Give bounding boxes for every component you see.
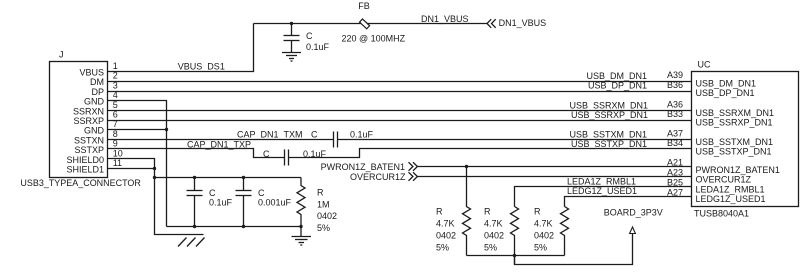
svg-text:DN1_VBUS: DN1_VBUS bbox=[421, 14, 469, 24]
svg-text:TUSB8040A1: TUSB8040A1 bbox=[694, 208, 749, 218]
svg-text:SSRXN: SSRXN bbox=[73, 106, 104, 116]
svg-text:SSTXN: SSTXN bbox=[74, 135, 104, 145]
node pullup tap bbox=[465, 165, 468, 168]
svg-text:USB_SSTXM_DN1: USB_SSTXM_DN1 bbox=[696, 137, 774, 147]
svg-text:USB_DM_DN1: USB_DM_DN1 bbox=[586, 71, 647, 81]
svg-text:OVERCUR1Z: OVERCUR1Z bbox=[696, 175, 752, 185]
svg-text:0402: 0402 bbox=[317, 211, 337, 221]
svg-text:1: 1 bbox=[113, 61, 118, 71]
svg-text:DN1_VBUS: DN1_VBUS bbox=[499, 18, 547, 28]
wire DM bbox=[108, 81, 692, 83]
svg-text:A23: A23 bbox=[667, 168, 683, 178]
wire gnd cap rail bottom bbox=[167, 226, 302, 228]
svg-text:0402: 0402 bbox=[436, 231, 456, 241]
svg-text:CAP_DN1_TXP: CAP_DN1_TXP bbox=[187, 139, 251, 149]
wire top rail bbox=[254, 23, 488, 25]
capacitor C 0.001uF (shield) bbox=[236, 176, 292, 228]
chassis ground bbox=[178, 238, 205, 247]
svg-text:UC: UC bbox=[698, 60, 711, 70]
wire SSTXP left bbox=[108, 149, 285, 158]
svg-text:C: C bbox=[263, 149, 270, 159]
svg-text:B33: B33 bbox=[667, 109, 683, 119]
node GND tee bbox=[165, 128, 168, 131]
svg-text:USB_DP_DN1: USB_DP_DN1 bbox=[696, 88, 755, 98]
node rail tie bbox=[513, 254, 516, 257]
svg-text:C: C bbox=[311, 130, 318, 140]
svg-text:2: 2 bbox=[113, 71, 118, 81]
capacitor C 0.1uF (top) bbox=[284, 24, 330, 53]
svg-text:SSTXP: SSTXP bbox=[74, 145, 104, 155]
resistor R 4.7K (3) bbox=[534, 207, 569, 256]
svg-text:4.7K: 4.7K bbox=[484, 219, 503, 229]
off-page connector PWRON1Z_BATEN1 bbox=[321, 162, 418, 172]
svg-text:A39: A39 bbox=[667, 70, 683, 80]
wire shield cap rail top bbox=[155, 177, 302, 179]
svg-text:R: R bbox=[484, 207, 491, 217]
svg-text:8: 8 bbox=[113, 129, 118, 139]
svg-text:J: J bbox=[59, 49, 64, 59]
svg-text:B36: B36 bbox=[667, 80, 683, 90]
svg-text:DM: DM bbox=[90, 77, 104, 87]
svg-text:C: C bbox=[258, 188, 265, 198]
wire GND pin7 bbox=[108, 129, 167, 131]
resistor R 1M bbox=[297, 178, 337, 233]
svg-text:5%: 5% bbox=[436, 242, 449, 252]
svg-text:USB_SSTXM_DN1: USB_SSTXM_DN1 bbox=[569, 129, 647, 139]
wire SSRXN bbox=[108, 110, 692, 112]
svg-text:0.1uF: 0.1uF bbox=[209, 198, 233, 208]
capacitor C 0.1uF (TXM series) bbox=[311, 130, 374, 148]
svg-text:5%: 5% bbox=[534, 242, 547, 252]
svg-text:DP: DP bbox=[91, 87, 104, 97]
svg-text:USB_SSRXM_DN1: USB_SSRXM_DN1 bbox=[696, 108, 775, 118]
wire OVERCUR1Z bbox=[417, 176, 691, 178]
svg-text:VBUS: VBUS bbox=[79, 68, 104, 78]
chip pin names bbox=[696, 79, 780, 205]
capacitor C 0.1uF (TXP series) bbox=[263, 149, 327, 166]
ground (top cap) bbox=[282, 53, 301, 62]
svg-text:GND: GND bbox=[84, 126, 105, 136]
chip UC pin numbers bbox=[667, 70, 683, 197]
svg-text:B25: B25 bbox=[667, 178, 683, 188]
wire GND pin4 bbox=[108, 101, 167, 227]
svg-text:R: R bbox=[534, 207, 541, 217]
wire pin1 VBUS to riser bbox=[108, 24, 254, 72]
off-page connector DN1_VBUS bbox=[487, 18, 546, 28]
svg-text:C: C bbox=[306, 31, 313, 41]
ground (R1M) bbox=[292, 227, 312, 246]
off-page connector OVERCUR1Z bbox=[350, 172, 417, 182]
svg-text:0.1uF: 0.1uF bbox=[350, 130, 374, 140]
svg-text:VBUS_DS1: VBUS_DS1 bbox=[178, 62, 225, 72]
connector pin numbers bbox=[113, 61, 123, 168]
svg-text:FB: FB bbox=[358, 1, 370, 11]
svg-text:SHIELD0: SHIELD0 bbox=[66, 155, 104, 165]
svg-text:5%: 5% bbox=[317, 223, 330, 233]
svg-text:220 @ 100MHZ: 220 @ 100MHZ bbox=[342, 34, 406, 44]
wire DP bbox=[108, 91, 692, 93]
svg-text:0.001uF: 0.001uF bbox=[258, 198, 292, 208]
svg-text:A37: A37 bbox=[667, 129, 683, 139]
resistor R 4.7K (2) bbox=[484, 207, 519, 265]
svg-text:B34: B34 bbox=[667, 138, 683, 148]
wire SSTXP right bbox=[289, 149, 692, 158]
wire SHIELD1 bbox=[108, 168, 155, 170]
svg-text:0402: 0402 bbox=[484, 231, 504, 241]
wire PWRON1Z_BATEN1 bbox=[417, 166, 691, 168]
svg-text:LEDG1Z_USED1: LEDG1Z_USED1 bbox=[696, 194, 766, 204]
node junction top cap bbox=[290, 22, 293, 25]
wire LEDA1Z_RMBL1 bbox=[515, 187, 692, 207]
wire pullup rail 1 bbox=[467, 255, 565, 257]
svg-text:A36: A36 bbox=[667, 100, 683, 110]
svg-text:R: R bbox=[436, 207, 443, 217]
svg-text:PWRON1Z_BATEN1: PWRON1Z_BATEN1 bbox=[696, 165, 780, 175]
svg-text:LEDA1Z_RMBL1: LEDA1Z_RMBL1 bbox=[696, 184, 765, 194]
node shield tie bbox=[153, 167, 156, 170]
resistor R 4.7K (1) bbox=[436, 167, 471, 256]
svg-text:R: R bbox=[317, 188, 324, 198]
wire LEDG1Z_USED1 bbox=[565, 197, 692, 207]
power BOARD_3P3V bbox=[604, 207, 663, 233]
svg-text:SHIELD1: SHIELD1 bbox=[66, 165, 104, 175]
svg-text:0.1uF: 0.1uF bbox=[306, 42, 330, 52]
svg-text:11: 11 bbox=[113, 158, 122, 168]
svg-text:0402: 0402 bbox=[534, 231, 554, 241]
svg-text:1M: 1M bbox=[317, 199, 330, 209]
svg-text:A27: A27 bbox=[667, 188, 683, 198]
svg-text:C: C bbox=[209, 188, 216, 198]
chip UC TUSB8040A1 body bbox=[692, 60, 799, 219]
capacitor C 0.1uF (shield) bbox=[187, 176, 233, 228]
wire pullup rail 2 to power bbox=[515, 234, 633, 265]
wire SSRXP bbox=[108, 120, 692, 122]
svg-text:USB_SSRXP_DN1: USB_SSRXP_DN1 bbox=[696, 118, 773, 128]
svg-text:CAP_DN1_TXM: CAP_DN1_TXM bbox=[237, 130, 303, 140]
wire SSTXN right bbox=[338, 139, 692, 141]
ferrite bead FB bbox=[342, 1, 406, 43]
connector pin names bbox=[66, 68, 104, 175]
svg-text:5: 5 bbox=[113, 100, 118, 110]
svg-text:USB_SSTXP_DN1: USB_SSTXP_DN1 bbox=[571, 139, 647, 149]
svg-text:PWRON1Z_BATEN1: PWRON1Z_BATEN1 bbox=[321, 162, 405, 172]
svg-text:USB3_TYPEA_CONNECTOR: USB3_TYPEA_CONNECTOR bbox=[20, 178, 141, 188]
svg-text:SSRXP: SSRXP bbox=[73, 116, 104, 126]
connector J body bbox=[20, 49, 141, 188]
svg-text:4.7K: 4.7K bbox=[534, 219, 553, 229]
svg-text:LEDG1Z_USED1: LEDG1Z_USED1 bbox=[567, 186, 637, 196]
svg-text:USB_SSRXM_DN1: USB_SSRXM_DN1 bbox=[569, 100, 648, 110]
svg-text:5%: 5% bbox=[484, 242, 497, 252]
svg-text:USB_DM_DN1: USB_DM_DN1 bbox=[696, 79, 757, 89]
svg-text:4.7K: 4.7K bbox=[436, 219, 455, 229]
svg-text:USB_SSRXP_DN1: USB_SSRXP_DN1 bbox=[571, 110, 648, 120]
svg-text:10: 10 bbox=[113, 148, 123, 158]
svg-text:USB_SSTXP_DN1: USB_SSTXP_DN1 bbox=[696, 147, 772, 157]
node R1M gnd bbox=[299, 225, 302, 228]
wire SHIELD0 bbox=[108, 159, 204, 235]
svg-text:USB_DP_DN1: USB_DP_DN1 bbox=[588, 81, 647, 91]
node shield to cap rail bbox=[153, 176, 156, 179]
svg-text:BOARD_3P3V: BOARD_3P3V bbox=[604, 207, 663, 217]
svg-text:A21: A21 bbox=[667, 158, 683, 168]
wire SSTXN left bbox=[108, 139, 334, 141]
svg-text:OVERCUR1Z: OVERCUR1Z bbox=[350, 172, 406, 182]
svg-text:GND: GND bbox=[84, 97, 105, 107]
svg-text:LEDA1Z_RMBL1: LEDA1Z_RMBL1 bbox=[567, 177, 636, 187]
